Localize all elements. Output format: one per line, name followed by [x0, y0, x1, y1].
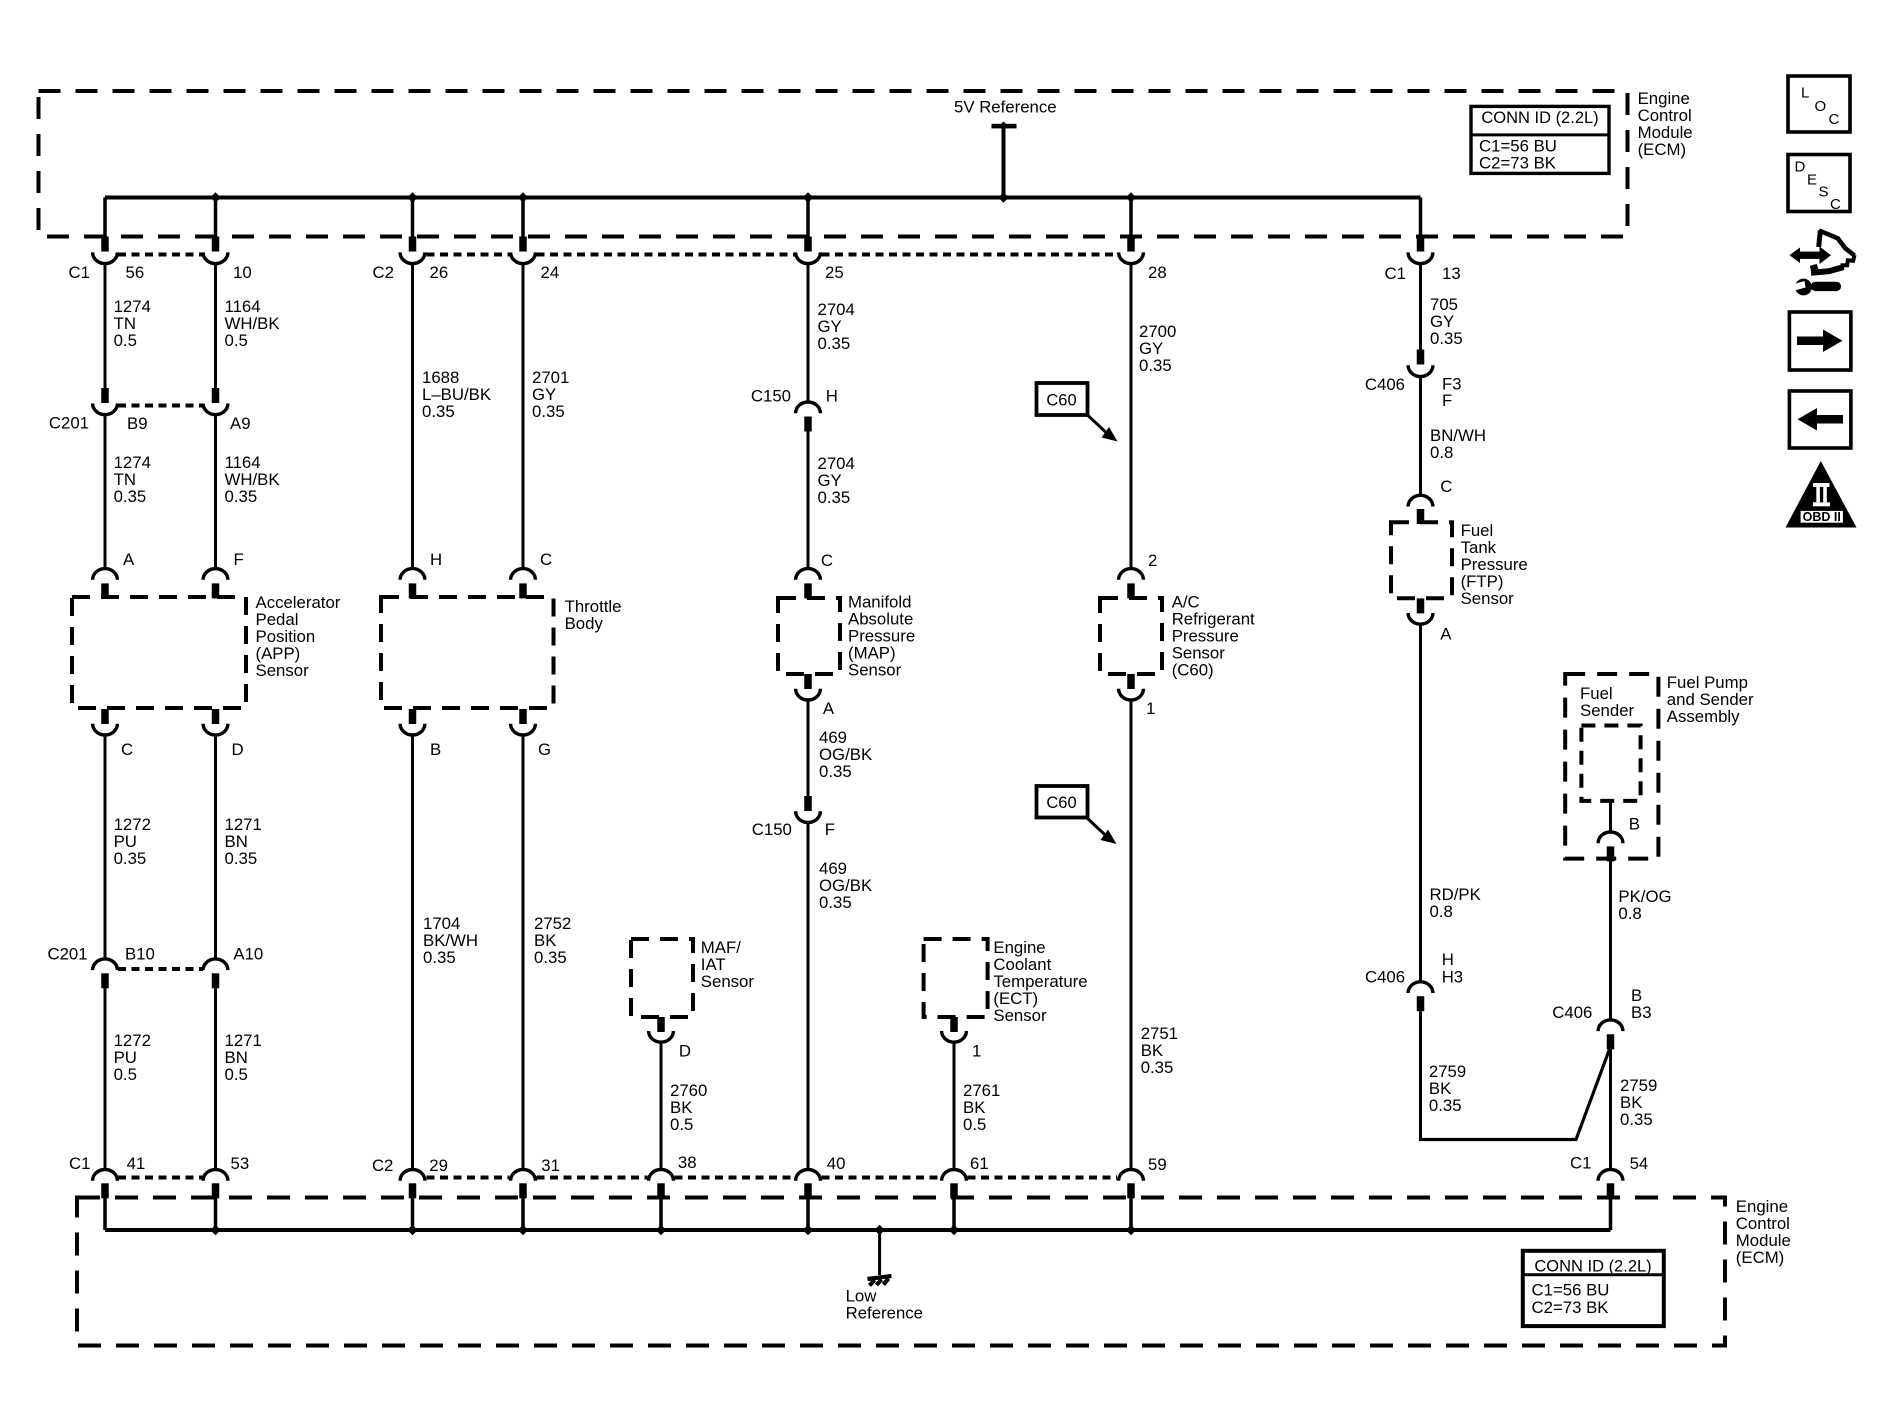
Throttle pin G	[519, 709, 527, 724]
svg-text:C60: C60	[1046, 794, 1076, 812]
svg-text:OBD II: OBD II	[1803, 510, 1841, 524]
connector C406 pin F3/F	[1417, 350, 1425, 365]
schematic/wrench icon	[1790, 247, 1832, 265]
svg-text:0.5: 0.5	[670, 1115, 693, 1134]
svg-text:C406: C406	[1365, 375, 1405, 394]
svg-text:E: E	[1807, 172, 1817, 189]
ECM top dashed box	[39, 91, 1628, 237]
svg-text:H: H	[430, 550, 442, 569]
MAF pin D	[657, 1017, 665, 1032]
ECM pin C1-13	[1419, 198, 1423, 237]
connector C201 pin B9	[101, 388, 109, 403]
ECT pin 1	[950, 1017, 958, 1032]
svg-text:59: 59	[1148, 1155, 1167, 1174]
svg-text:2: 2	[1148, 551, 1157, 570]
svg-text:B: B	[1629, 814, 1640, 833]
svg-text:0.35: 0.35	[818, 334, 851, 353]
DESC icon	[1788, 155, 1850, 212]
left arrow icon	[1789, 391, 1851, 448]
svg-text:0.35: 0.35	[114, 487, 147, 506]
svg-text:0.5: 0.5	[963, 1115, 986, 1134]
svg-text:0.35: 0.35	[534, 948, 567, 967]
connector C201 pin B10	[93, 959, 118, 970]
ECM pin 10	[214, 198, 218, 237]
svg-text:D: D	[679, 1042, 691, 1061]
ECM pin 53	[203, 1170, 228, 1181]
svg-text:C1: C1	[69, 1154, 90, 1173]
svg-text:O: O	[1815, 98, 1827, 115]
svg-text:G: G	[538, 740, 551, 759]
wire 2751 BK 0.35	[1130, 702, 1133, 1170]
wire 2760 BK 0.5	[660, 1043, 663, 1170]
ECT sensor dashed box	[924, 939, 988, 1017]
Fuel Pump and Sender Assembly dashed box	[1565, 674, 1658, 859]
wire 1274 TN 0.35	[104, 415, 107, 568]
svg-text:0.35: 0.35	[818, 488, 851, 507]
svg-text:0.35: 0.35	[225, 849, 258, 868]
svg-text:C: C	[1440, 477, 1452, 496]
svg-text:0.8: 0.8	[1430, 902, 1453, 921]
svg-text:Sensor: Sensor	[1461, 589, 1515, 608]
svg-text:C1: C1	[1570, 1154, 1591, 1173]
ECM pin 31	[511, 1170, 536, 1181]
svg-text:28: 28	[1148, 263, 1167, 282]
svg-text:C2=73 BK: C2=73 BK	[1479, 154, 1556, 173]
svg-text:C: C	[121, 740, 133, 759]
svg-text:A9: A9	[230, 414, 251, 433]
Fuel Tank Pressure sensor dashed box	[1391, 522, 1452, 598]
svg-text:0.35: 0.35	[225, 487, 258, 506]
dotted line C201	[118, 404, 203, 408]
svg-text:C: C	[1829, 111, 1840, 128]
connector C150 pin F	[804, 796, 812, 811]
wire PK/OG 0.8	[1609, 861, 1612, 1020]
svg-text:CONN ID (2.2L): CONN ID (2.2L)	[1534, 1258, 1651, 1276]
svg-text:A10: A10	[233, 945, 263, 964]
ECM pin C1-54	[1598, 1169, 1623, 1180]
svg-text:C60: C60	[1046, 392, 1076, 410]
wire 1271 BN 0.5	[214, 988, 217, 1169]
svg-text:C1: C1	[69, 263, 90, 282]
svg-text:D: D	[232, 740, 244, 759]
connector dotted line bottom C1	[118, 1176, 203, 1180]
svg-text:0.5: 0.5	[225, 331, 248, 350]
dotted line C201 lower	[118, 967, 203, 971]
svg-text:41: 41	[127, 1154, 146, 1173]
ECM pin C2-26	[411, 198, 415, 237]
svg-text:0.35: 0.35	[1141, 1058, 1174, 1077]
svg-text:B3: B3	[1631, 1003, 1652, 1022]
ECM pin 38	[649, 1169, 674, 1180]
svg-text:L: L	[1801, 85, 1809, 102]
svg-text:A: A	[823, 699, 835, 718]
5V reference supply symbol	[992, 124, 1017, 129]
svg-text:C: C	[821, 551, 833, 570]
svg-text:0.35: 0.35	[1139, 356, 1172, 375]
svg-text:1: 1	[972, 1042, 981, 1061]
connector C150 pin H	[796, 402, 821, 413]
Fuel Sender pin B	[1609, 801, 1612, 832]
svg-text:40: 40	[827, 1154, 846, 1173]
Fuel Sender dashed box	[1581, 726, 1640, 801]
svg-text:61: 61	[970, 1154, 989, 1173]
wire 2701 GY 0.35	[522, 264, 525, 569]
wire 705 GY 0.35	[1419, 264, 1422, 350]
svg-text:B9: B9	[127, 414, 148, 433]
svg-text:C150: C150	[751, 387, 791, 406]
FTP pin A	[1417, 598, 1425, 613]
svg-text:56: 56	[126, 263, 145, 282]
svg-text:0.35: 0.35	[1620, 1110, 1653, 1129]
MAF/IAT sensor dashed box	[631, 939, 693, 1017]
wire 1271 BN 0.35	[214, 737, 217, 959]
svg-text:CONN ID (2.2L): CONN ID (2.2L)	[1481, 109, 1598, 127]
svg-text:53: 53	[231, 1154, 250, 1173]
A/C Refrigerant Pressure Sensor dashed box	[1100, 598, 1162, 674]
svg-text:0.35: 0.35	[819, 893, 852, 912]
MAP pin A	[804, 674, 812, 689]
svg-text:Sender: Sender	[1580, 701, 1635, 720]
svg-text:A: A	[1440, 624, 1452, 643]
right arrow icon	[1789, 312, 1851, 370]
svg-text:Body: Body	[565, 614, 604, 633]
connector C406 pin B/B3	[1598, 1020, 1623, 1031]
svg-text:0.8: 0.8	[1618, 904, 1641, 923]
ECM pin 40	[796, 1169, 821, 1180]
svg-text:0.5: 0.5	[114, 1065, 137, 1084]
svg-text:0.8: 0.8	[1430, 443, 1453, 462]
wire 2700 GY 0.35	[1130, 264, 1133, 569]
APP sensor dashed box	[72, 597, 246, 708]
svg-text:10: 10	[233, 263, 252, 282]
svg-text:38: 38	[678, 1153, 697, 1172]
svg-text:Assembly: Assembly	[1667, 707, 1740, 726]
wire 1164 WH/BK 0.5	[214, 264, 217, 388]
svg-text:C: C	[540, 550, 552, 569]
svg-text:(C60): (C60)	[1172, 661, 1214, 680]
svg-text:1: 1	[1146, 699, 1155, 718]
svg-text:(ECM): (ECM)	[1736, 1248, 1784, 1267]
svg-text:C: C	[1830, 196, 1841, 213]
svg-text:B: B	[430, 740, 441, 759]
svg-text:H: H	[826, 387, 838, 406]
wire 1704 BK/WH 0.35	[411, 737, 414, 1170]
wire 1274 TN 0.5	[104, 264, 107, 388]
connector dotted line bottom C2	[427, 1176, 510, 1180]
connector dotted line C2 pins	[427, 253, 510, 257]
svg-text:0.35: 0.35	[1430, 329, 1463, 348]
connector C201 pin A9	[212, 388, 220, 403]
svg-text:0.35: 0.35	[1429, 1096, 1462, 1115]
ECM pin 28	[1129, 198, 1133, 237]
svg-text:13: 13	[1442, 264, 1461, 283]
svg-text:Reference: Reference	[846, 1303, 923, 1322]
wire 2704 GY 0.35 lower	[807, 431, 810, 569]
C60 callout upper	[1037, 383, 1088, 415]
LOC icon	[1788, 76, 1850, 132]
svg-text:C2: C2	[372, 1156, 393, 1175]
svg-text:C2: C2	[373, 263, 394, 282]
svg-text:F: F	[1442, 391, 1452, 410]
svg-text:C2=73 BK: C2=73 BK	[1532, 1298, 1609, 1317]
svg-text:Sensor: Sensor	[701, 972, 755, 991]
svg-text:F: F	[234, 550, 244, 569]
connector C201 pin A10	[203, 959, 228, 970]
CONN ID box (top)	[1471, 106, 1609, 173]
APP pin C	[101, 709, 109, 724]
svg-text:F: F	[825, 820, 835, 839]
ECM pin C1-41	[93, 1170, 118, 1181]
svg-text:Sensor: Sensor	[256, 661, 310, 680]
svg-text:C1=56 BU: C1=56 BU	[1532, 1281, 1610, 1300]
wire 1688 L-BU/BK 0.35	[411, 264, 414, 569]
svg-text:25: 25	[825, 263, 844, 282]
ECM bottom dashed box	[77, 1198, 1725, 1346]
wire - 5V reference bus	[105, 196, 1421, 200]
C60 callout lower	[1037, 786, 1088, 818]
svg-text:24: 24	[541, 263, 560, 282]
ECM pin 61	[942, 1169, 967, 1180]
svg-text:S: S	[1819, 184, 1829, 201]
wire RD/PK 0.8	[1419, 625, 1422, 982]
wire splice to C406 B3	[1421, 1047, 1611, 1140]
svg-text:0.35: 0.35	[114, 849, 147, 868]
svg-text:0.5: 0.5	[225, 1065, 248, 1084]
wire 2752 BK 0.35	[522, 737, 525, 1170]
svg-text:0.5: 0.5	[114, 331, 137, 350]
wire BN/WH 0.8	[1419, 377, 1422, 495]
svg-text:C201: C201	[47, 945, 87, 964]
Throttle pin B	[409, 709, 417, 724]
svg-text:D: D	[1795, 159, 1806, 176]
wire 1164 WH/BK 0.35	[214, 415, 217, 568]
CONN ID box (bottom)	[1523, 1251, 1664, 1326]
svg-text:54: 54	[1630, 1154, 1649, 1173]
wire 2759 BK 0.35 left	[1419, 1011, 1422, 1138]
ECM pin C1-56	[103, 198, 107, 237]
OBD II icon	[1786, 461, 1857, 528]
connector C406 pin H/H3	[1408, 982, 1433, 993]
svg-text:A: A	[123, 550, 135, 569]
connector dotted line C1 pins	[118, 253, 203, 257]
svg-text:B10: B10	[125, 945, 155, 964]
wire 469 OG/BK 0.35 lower	[807, 823, 810, 1170]
A/C pin 1	[1127, 674, 1135, 689]
MAP sensor dashed box	[778, 598, 840, 674]
svg-text:(ECM): (ECM)	[1638, 140, 1686, 159]
svg-text:Sensor: Sensor	[993, 1006, 1047, 1025]
ECM pin 24	[521, 198, 525, 237]
wire 469 OG/BK 0.35 upper	[807, 702, 810, 797]
svg-text:Sensor: Sensor	[848, 661, 902, 680]
wire - low reference bus	[105, 1228, 1611, 1232]
wire 1272 PU 0.35	[104, 737, 107, 959]
svg-text:C406: C406	[1552, 1003, 1592, 1022]
svg-text:31: 31	[541, 1156, 560, 1175]
svg-text:0.35: 0.35	[532, 402, 565, 421]
svg-text:H3: H3	[1442, 968, 1463, 987]
svg-text:C150: C150	[752, 820, 792, 839]
svg-text:0.35: 0.35	[423, 948, 456, 967]
APP pin D	[212, 709, 220, 724]
svg-text:5V Reference: 5V Reference	[954, 98, 1057, 117]
svg-text:C406: C406	[1365, 968, 1405, 987]
wire 2761 BK 0.5	[953, 1043, 956, 1170]
ECM pin 59	[1119, 1169, 1144, 1180]
ground - Low Reference	[878, 1230, 881, 1275]
svg-text:H: H	[1442, 950, 1454, 969]
wire 2759 BK 0.35 right	[1609, 1049, 1612, 1170]
svg-text:C1: C1	[1385, 264, 1406, 283]
Throttle Body dashed box	[381, 597, 554, 708]
svg-text:0.35: 0.35	[422, 402, 455, 421]
svg-text:26: 26	[430, 263, 449, 282]
wire 2704 GY 0.35 upper	[807, 264, 810, 402]
ECM pin C2-29	[400, 1170, 425, 1181]
svg-text:C201: C201	[49, 414, 89, 433]
ECM pin 25	[806, 198, 810, 237]
svg-text:29: 29	[429, 1156, 448, 1175]
svg-text:0.35: 0.35	[819, 762, 852, 781]
wire 1272 PU 0.5	[104, 988, 107, 1169]
